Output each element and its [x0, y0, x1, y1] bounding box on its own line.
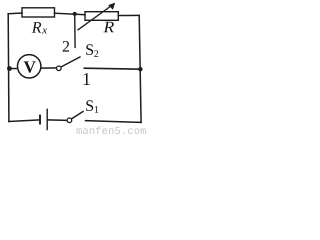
battery: long positive plate	[46, 109, 48, 131]
wire: bottom side middle part (battery to S1 pole)	[47, 119, 67, 121]
label Rx	[32, 22, 42, 32]
label R (rheostat)	[103, 22, 114, 32]
wire: node-2 vertical stub (top junction down to contact 2)	[74, 15, 76, 48]
switch S1 blade	[72, 111, 84, 119]
wire: bottom side right part (S1 fixed contact to right corner)	[86, 121, 142, 123]
label S1	[86, 100, 93, 111]
wire: right vertical side	[139, 15, 141, 122]
junction dot: left wire voltmeter tap	[7, 66, 12, 71]
switch S2 pole circle	[57, 66, 62, 71]
switch S1 pole circle	[67, 118, 72, 123]
rheostat R arrowhead	[108, 3, 115, 10]
rheostat R arrow shaft	[78, 4, 113, 29]
wire: node-1 branch (contact 1 to right-side junction)	[84, 68, 140, 69]
junction dot: right wire node 1	[138, 67, 142, 71]
switch S2 blade	[61, 57, 81, 67]
wire: left vertical side	[7, 14, 10, 122]
rheostat R box	[85, 12, 118, 21]
wire: top-middle segment (Rx to rheostat)	[55, 13, 86, 15]
battery: short negative plate	[39, 115, 41, 125]
label 2 (contact 2)	[63, 41, 69, 52]
label S2	[86, 44, 93, 55]
wire: top-right segment	[118, 14, 139, 16]
voltmeter V circle	[18, 55, 41, 78]
wire: top-left horizontal segment	[8, 12, 22, 15]
watermark manfen5.com	[77, 126, 146, 134]
voltmeter letter V	[24, 61, 36, 72]
junction dot: top node 2	[73, 12, 77, 16]
wire: voltmeter branch (left wire to S2 pole)	[9, 67, 57, 70]
wire: bottom side left part (left corner to battery)	[9, 120, 40, 122]
label 1 (contact 1)	[84, 73, 90, 85]
resistor Rx box	[22, 8, 55, 17]
